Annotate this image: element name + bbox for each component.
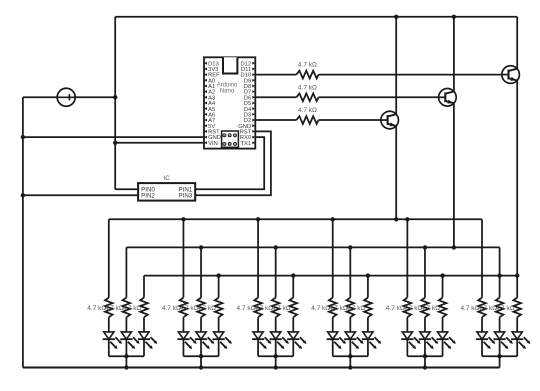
LED D18 [512, 332, 522, 339]
wire: column g3c3 [292, 276, 294, 298]
resistor R6 4.7k [140, 298, 148, 318]
resistor R10 4.7k [254, 298, 262, 318]
junction: row bus 3 / group6 col2 [497, 273, 501, 277]
junction: row bus 1 g5 [405, 217, 409, 221]
resistor R8 4.7k [197, 298, 205, 318]
junction: row bus 3 g2 [216, 273, 220, 277]
wire: column g4c1 [332, 219, 334, 297]
wire: LED cathode lead g3c1 [257, 339, 259, 356]
wire: IC PIN3 to Arduino RST [195, 131, 271, 195]
wire: Arduino pin to R1 [255, 74, 296, 76]
wire: group 5 cathode wire [407, 355, 442, 357]
wire: Q3 emitter down [516, 80, 518, 297]
LED D2 [121, 332, 131, 339]
wire: row bus 2 [126, 246, 499, 248]
wire: R18 to LED [442, 317, 444, 332]
Arduino Nano module U1 [204, 57, 255, 148]
LED D10 [328, 332, 338, 339]
wire: LED cathode lead g4c1 [332, 339, 334, 356]
wire: LED cathode lead g4c2 [349, 339, 351, 356]
resistor R21 4.7k [513, 298, 521, 318]
wire: LED cathode lead g5c3 [442, 339, 444, 356]
LED D12 [363, 332, 373, 339]
resistor R12 4.7k [289, 298, 297, 318]
wire: LED cathode lead g2c3 [218, 339, 220, 356]
wire: row bus 3 [144, 275, 517, 277]
junction: row bus 3 g3 [291, 273, 295, 277]
junction: group 3 center [273, 354, 277, 358]
resistor R9 4.7k [215, 298, 223, 318]
LED D11 [345, 332, 355, 339]
wire: R17 to LED [424, 317, 426, 332]
wire: group 4 drop to bottom bus [349, 356, 351, 367]
wire: R3 to transistor base [319, 119, 381, 121]
wire: R20 to LED [499, 317, 501, 332]
wire: column g6c1 [481, 219, 483, 297]
junction: left rail / PIN2 wire [21, 193, 25, 197]
wire: Q2 emitter down [453, 103, 455, 247]
wire: LED cathode lead g6c3 [516, 339, 518, 356]
resistor R2 4.7k [296, 93, 318, 101]
LED D9 [288, 332, 298, 339]
wire: R11 to LED [275, 317, 277, 332]
resistor R4 4.7k [105, 298, 113, 318]
transistor Q1 [381, 111, 399, 129]
wire: column g4c2 [349, 247, 351, 297]
wire: R7 to LED [182, 317, 184, 332]
wire: column g4c3 [367, 276, 369, 298]
wire: group 2 drop to bottom bus [200, 356, 202, 367]
junction: row bus 1 g4 [331, 217, 335, 221]
wire: R14 to LED [349, 317, 351, 332]
wire: column g1c3 [143, 276, 145, 298]
LED D7 [253, 332, 263, 339]
junction: Q3 emitter / row bus 3 [515, 273, 519, 277]
junction: bottom bus group 3 [273, 365, 277, 369]
junction: group 6 center [497, 354, 501, 358]
wire: Q1 collector up [395, 17, 397, 114]
resistor R13 4.7k [329, 298, 337, 318]
junction: top rail / Q1 collector [394, 15, 398, 19]
svg-text:Nano: Nano [220, 88, 235, 94]
IC U2 [138, 183, 195, 201]
wire: R9 to LED [218, 317, 220, 332]
transistor Q2 [439, 89, 457, 107]
junction: battery plus / mid rail [113, 95, 117, 99]
wire: battery minus lead [23, 96, 57, 98]
LED D6 [214, 332, 224, 339]
LED D17 [495, 332, 505, 339]
resistor R20 4.7k [496, 298, 504, 318]
wire: Q1 emitter down [395, 126, 397, 219]
LED D4 [178, 332, 188, 339]
junction: mid rail / VIN wire [113, 141, 117, 145]
LED D8 [271, 332, 281, 339]
resistor R16 4.7k [404, 298, 412, 318]
svg-text:PIN2: PIN2 [141, 193, 155, 200]
wire: group 2 cathode wire [183, 355, 218, 357]
resistor R18 4.7k [439, 298, 447, 318]
wire: LED cathode lead g2c1 [182, 339, 184, 356]
wire: LED cathode lead g2c2 [200, 339, 202, 356]
wire: group 1 drop to bottom bus [125, 356, 127, 367]
wire: LED cathode lead g5c2 [424, 339, 426, 356]
wire: left rail to IC PIN2 [23, 194, 138, 196]
wire: column g2c2 [200, 247, 202, 297]
wire: LED cathode lead g4c3 [367, 339, 369, 356]
resistor R14 4.7k [347, 298, 355, 318]
wire: group 6 cathode wire [482, 355, 517, 357]
wire: LED cathode lead g1c2 [125, 339, 127, 356]
junction: Q1 emitter / row bus 1 [394, 217, 398, 221]
svg-text:TX1: TX1 [241, 141, 252, 147]
wire: column g6c2 [499, 247, 501, 297]
wire: IC PIN1 to Arduino RX0 [195, 137, 264, 189]
wire: column g3c1 [257, 219, 259, 297]
LED D13 [402, 332, 412, 339]
wire: column g1c1 [108, 219, 110, 297]
wire: group 6 drop to bottom bus [499, 356, 501, 367]
wire: column g2c1 [182, 219, 184, 297]
svg-text:PIN3: PIN3 [179, 193, 193, 200]
wire: R8 to LED [200, 317, 202, 332]
wire: bottom ground bus [23, 367, 500, 369]
resistor R11 4.7k [272, 298, 280, 318]
wire: group 3 cathode wire [258, 355, 293, 357]
junction: bottom bus group 2 [199, 365, 203, 369]
resistor R5 4.7k [123, 298, 131, 318]
wire: Arduino pin to R3 [255, 119, 296, 121]
LED D1 [104, 332, 114, 339]
wire: R21 to LED [516, 317, 518, 332]
resistor R19 4.7k [478, 298, 486, 318]
transistor Q3 [502, 66, 520, 84]
wire: R16 to LED [406, 317, 408, 332]
wire: mid rail from top to IC PIN0 [114, 17, 116, 190]
junction: bottom bus group 5 [423, 365, 427, 369]
wire: VIN to Arduino [115, 142, 204, 144]
svg-text:4.7 kΩ: 4.7 kΩ [298, 62, 317, 69]
wire: LED cathode lead g1c1 [108, 339, 110, 356]
resistor R7 4.7k [180, 298, 188, 318]
wire: left rail battery minus [22, 97, 24, 367]
svg-text:VIN: VIN [208, 141, 218, 147]
wire: column g2c3 [218, 276, 220, 298]
svg-text:IC: IC [164, 175, 171, 182]
svg-text:4.7 kΩ: 4.7 kΩ [298, 84, 317, 91]
wire: R6 to LED [143, 317, 145, 332]
wire: R15 to LED [367, 317, 369, 332]
wire: column g5c1 [406, 219, 408, 297]
junction: left rail / GND wire [21, 135, 25, 139]
wire: Arduino pin to R2 [255, 96, 296, 98]
resistor R15 4.7k [364, 298, 372, 318]
wire: group 5 drop to bottom bus [424, 356, 426, 367]
svg-text:4.7 kΩ: 4.7 kΩ [298, 107, 317, 114]
wire: column g1c2 [125, 247, 127, 297]
resistor R1 4.7k [296, 71, 318, 79]
wire: LED cathode lead g3c2 [275, 339, 277, 356]
wire: R13 to LED [332, 317, 334, 332]
wire: LED cathode lead g6c2 [499, 339, 501, 356]
junction: row bus 3 g5 [440, 273, 444, 277]
junction: group 5 center [423, 354, 427, 358]
wire: LED cathode lead g1c3 [143, 339, 145, 356]
wire: R1 to transistor base [319, 74, 502, 76]
wire: group 1 cathode wire [109, 355, 144, 357]
LED D5 [196, 332, 206, 339]
LED D15 [437, 332, 447, 339]
wire: LED cathode lead g5c1 [406, 339, 408, 356]
wire: LED cathode lead g3c3 [292, 339, 294, 356]
LED D3 [139, 332, 149, 339]
wire: group 3 drop to bottom bus [275, 356, 277, 367]
wire: R5 to LED [125, 317, 127, 332]
wire: group 4 cathode wire [333, 355, 368, 357]
resistor R3 4.7k [296, 116, 318, 124]
wire: column g5c2 [424, 247, 426, 297]
voltage source V1 [57, 88, 75, 106]
wire: column g3c2 [275, 247, 277, 297]
wire: Q2 collector up [453, 17, 455, 92]
wire: R19 to LED [481, 317, 483, 332]
junction: row bus 1 g2 [181, 217, 185, 221]
wire: R2 to transistor base [319, 96, 439, 98]
wire: R4 to LED [108, 317, 110, 332]
wire: battery plus lead [75, 96, 115, 98]
junction: group 2 center [199, 354, 203, 358]
junction: row bus 3 g4 [366, 273, 370, 277]
junction: bottom bus group 1 [124, 365, 128, 369]
wire: row bus 1 [109, 218, 482, 220]
junction: bottom bus group 4 [348, 365, 352, 369]
wire: column g5c3 [442, 276, 444, 298]
wire: LED cathode lead g6c1 [481, 339, 483, 356]
wire: +V top rail [115, 16, 517, 18]
junction: group 4 center [348, 354, 352, 358]
wire: R12 to LED [292, 317, 294, 332]
junction: group 1 center [124, 354, 128, 358]
wire: GND to Arduino [23, 136, 204, 138]
junction: Q2 emitter / row bus 2 [452, 245, 456, 249]
resistor R17 4.7k [421, 298, 429, 318]
wire: R10 to LED [257, 317, 259, 332]
junction: row bus 2 g4 [348, 245, 352, 249]
junction: row bus 2 g2 [199, 245, 203, 249]
junction: row bus 1 g3 [256, 217, 260, 221]
junction: row bus 2 g3 [273, 245, 277, 249]
LED D14 [420, 332, 430, 339]
junction: row bus 2 g5 [423, 245, 427, 249]
LED D16 [477, 332, 487, 339]
junction: top rail / Q2 collector [452, 15, 456, 19]
